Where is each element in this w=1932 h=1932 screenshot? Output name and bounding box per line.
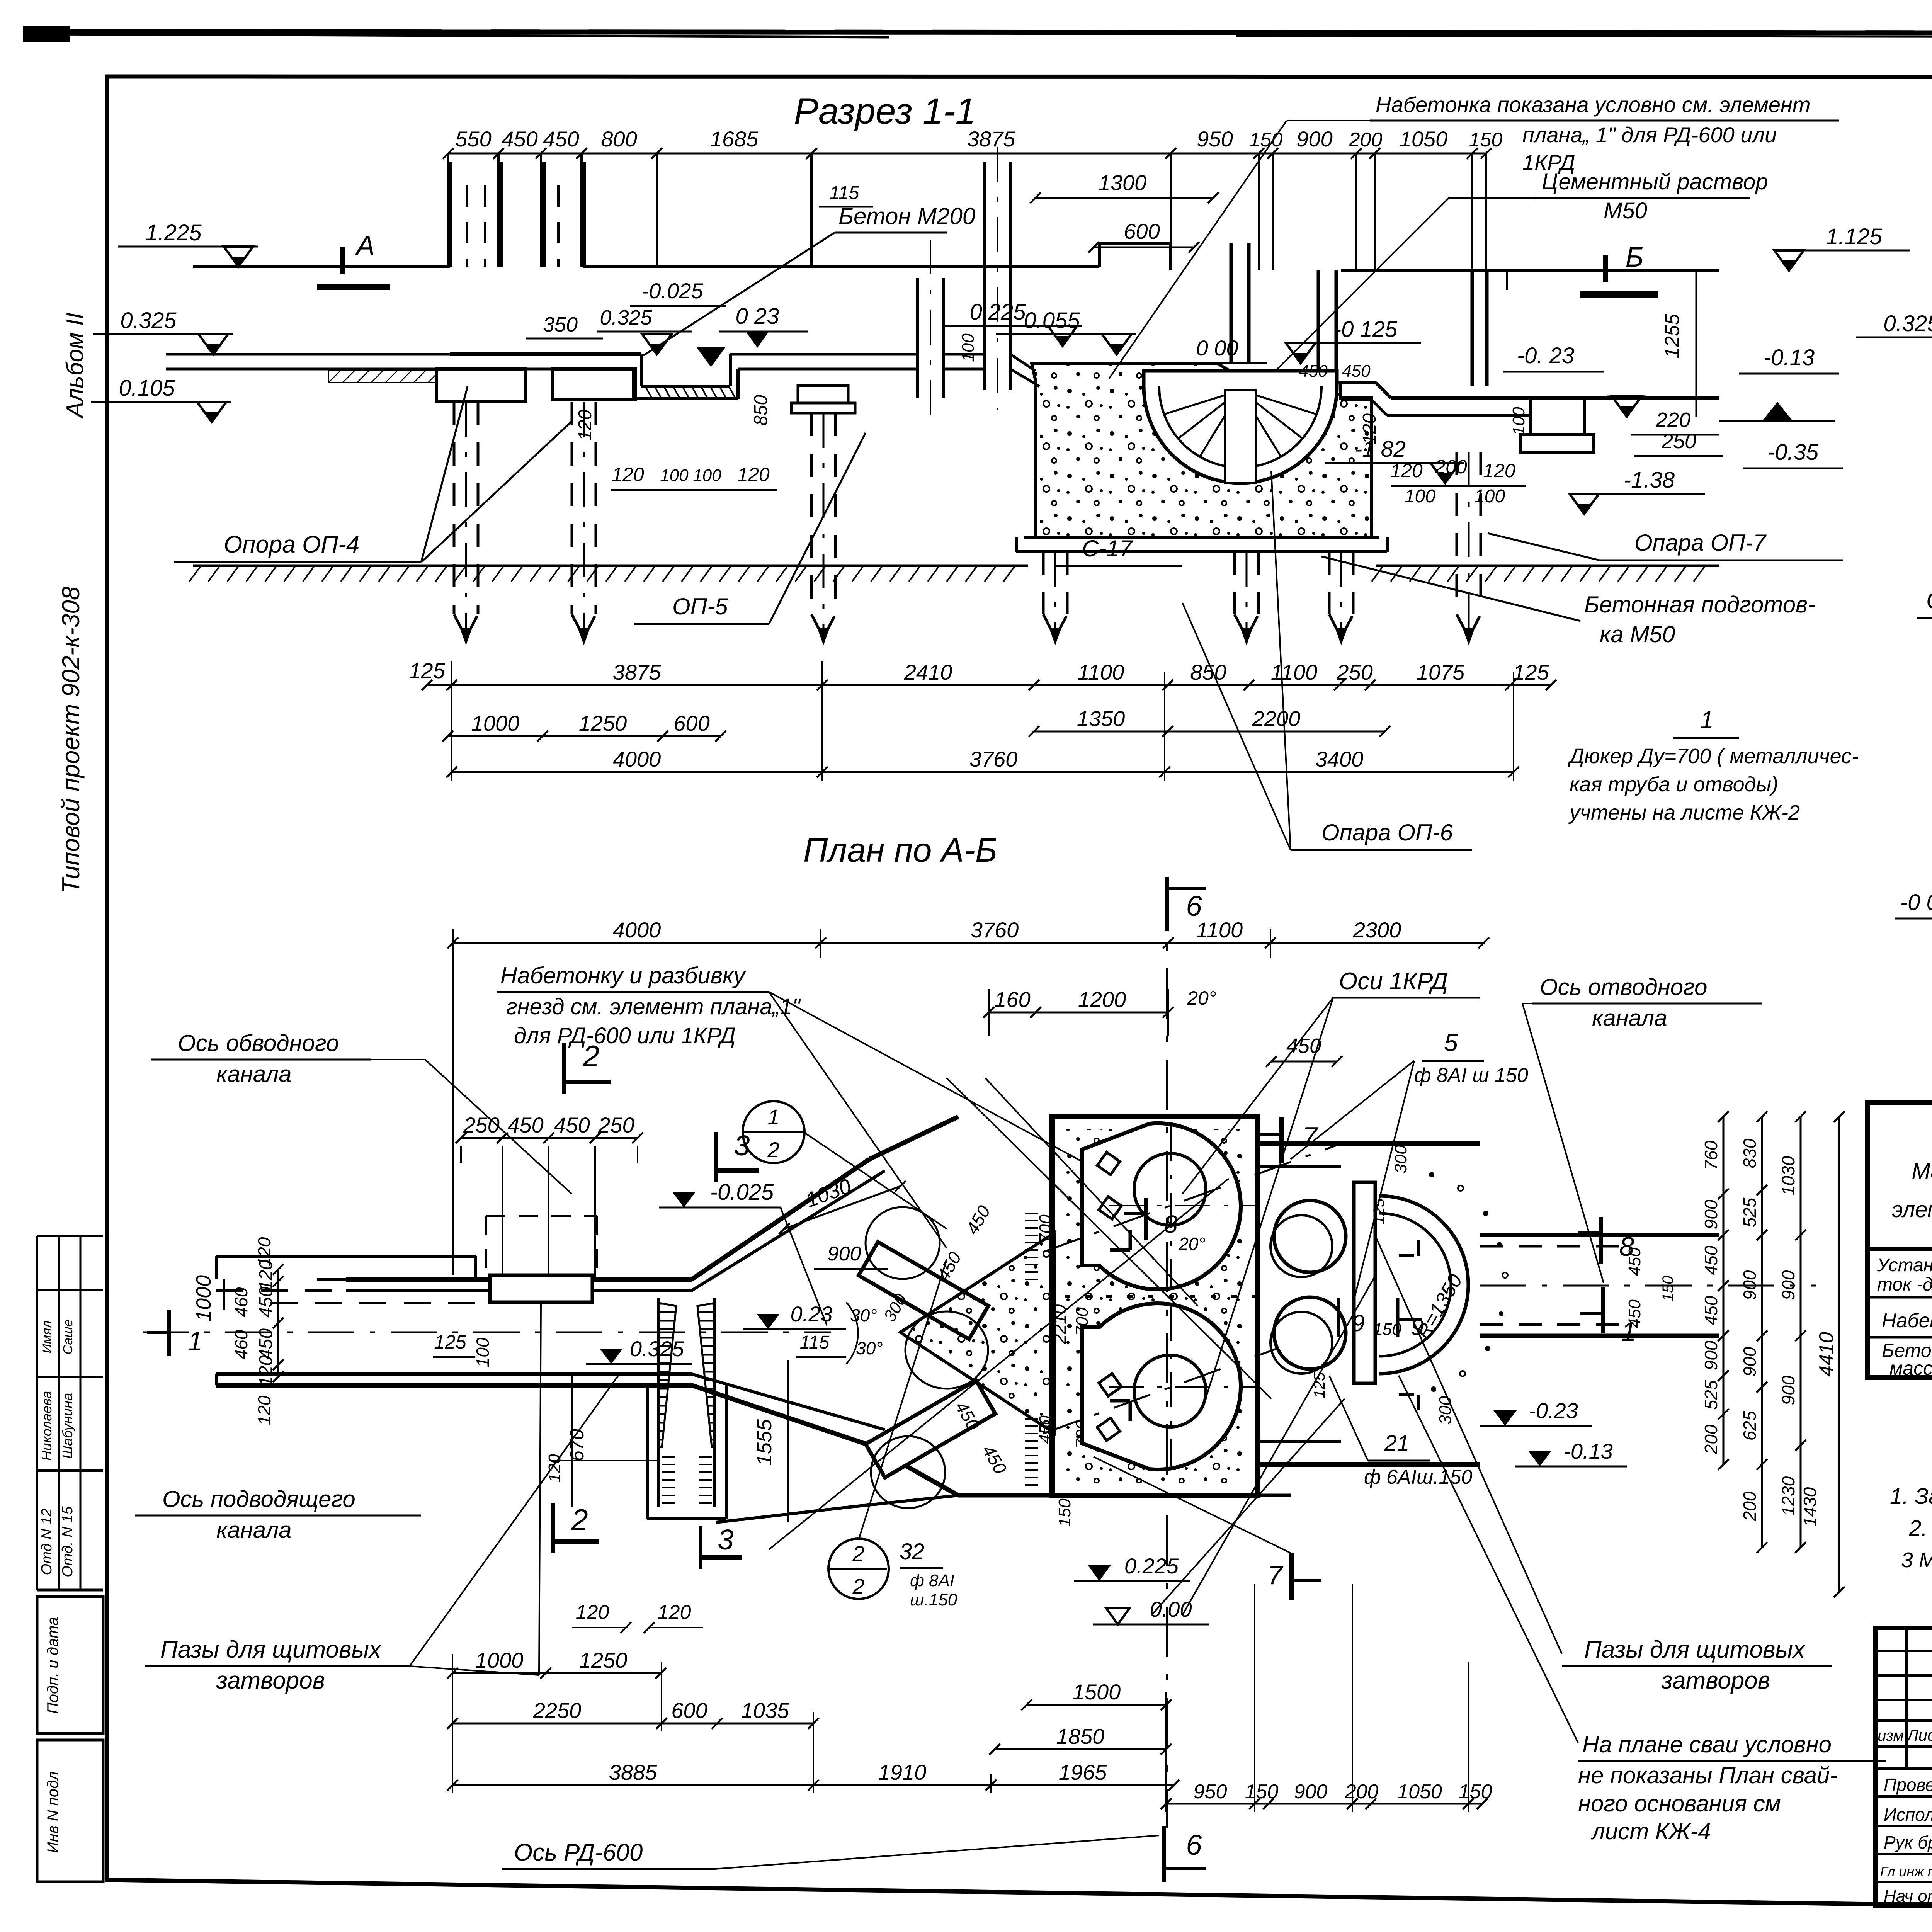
svg-text:затворов: затворов <box>216 1667 325 1694</box>
margin text project <box>57 586 85 893</box>
svg-text:Опара ОП-7: Опара ОП-7 <box>1634 530 1767 556</box>
section 1-1 mid labels <box>526 279 808 367</box>
label tsementnyi rastvor <box>1236 169 1768 410</box>
svg-text:1000: 1000 <box>192 1275 215 1321</box>
base slab under block <box>1016 537 1387 552</box>
svg-text:1.125: 1.125 <box>1826 224 1882 249</box>
svg-text:массив: массив <box>1889 1357 1932 1379</box>
svg-text:200: 200 <box>1434 456 1467 478</box>
svg-text:120: 120 <box>1483 460 1515 481</box>
svg-text:1850: 1850 <box>1056 1724 1105 1748</box>
label c-17 <box>1055 536 1182 566</box>
level 0.23 plan <box>743 1302 846 1329</box>
svg-text:1910: 1910 <box>878 1760 927 1784</box>
section mark 6 bottom <box>1164 1826 1206 1882</box>
svg-text:100: 100 <box>1474 486 1505 507</box>
svg-text:Б: Б <box>1626 242 1644 273</box>
dim 1555 rotated <box>753 1360 788 1522</box>
plan middle outlet walls <box>1258 1144 1480 1464</box>
svg-text:460: 460 <box>231 1330 251 1359</box>
section mark 7 upper <box>1258 1117 1319 1163</box>
svg-text:-0.13: -0.13 <box>1764 345 1815 370</box>
section 1-1 mid walls pair B <box>959 147 1010 410</box>
svg-text:900: 900 <box>1778 1270 1798 1300</box>
svg-text:0.105: 0.105 <box>119 376 175 401</box>
dim 670 120 plan lower-left <box>545 1374 657 1507</box>
dims 160 1200 20deg <box>983 987 1216 1036</box>
svg-text:800: 800 <box>601 127 637 151</box>
plan teardrop upper <box>1043 1123 1341 1289</box>
svg-text:3: 3 <box>718 1524 733 1556</box>
label pazy dlya shchitovykh left <box>145 1302 618 1694</box>
plan chamber square <box>1052 1117 1258 1495</box>
margin stamp table <box>37 1236 103 1590</box>
section 1-1 bottom dims row1 <box>409 658 1556 690</box>
svg-text:830: 830 <box>1740 1138 1760 1168</box>
svg-text:2: 2 <box>767 1138 779 1162</box>
svg-text:Бетонная подготов-: Бетонная подготов- <box>1584 592 1815 617</box>
svg-text:3885: 3885 <box>609 1760 657 1784</box>
svg-text:600: 600 <box>671 1698 707 1723</box>
support op-4 pads <box>437 369 636 402</box>
label opora op-4 2-2 <box>1917 410 1932 618</box>
svg-text:-0.025: -0.025 <box>642 279 704 303</box>
svg-text:760: 760 <box>1701 1140 1721 1170</box>
svg-text:450: 450 <box>1342 362 1371 381</box>
svg-text:Шабунина: Шабунина <box>60 1393 75 1459</box>
svg-text:150: 150 <box>1055 1498 1074 1527</box>
label op-5 <box>634 433 866 624</box>
svg-text:250: 250 <box>598 1113 634 1137</box>
title block frame <box>1875 1628 1932 1907</box>
svg-text:125: 125 <box>409 658 445 683</box>
svg-text:3 Марка бетона по морозостой: 3 Марка бетона по морозостойкости и водо… <box>1901 1548 1932 1572</box>
section mark 8 right <box>1578 1217 1634 1264</box>
label osi 1KRD <box>1182 968 1480 1399</box>
svg-text:4410: 4410 <box>1815 1332 1838 1377</box>
svg-text:канала: канала <box>216 1061 292 1087</box>
plan gate circle upper <box>866 1207 988 1389</box>
svg-text:125: 125 <box>434 1331 466 1353</box>
label opora op-4 <box>174 386 572 562</box>
svg-text:1. За относительную отм 0.: 1. За относительную отм 0.00 принята абс… <box>1890 1484 1932 1509</box>
svg-text:120: 120 <box>658 1601 691 1624</box>
svg-text:100: 100 <box>473 1337 493 1367</box>
svg-text:-0. 23: -0. 23 <box>1517 343 1574 368</box>
ground hatch line section 1-1 <box>189 566 1719 582</box>
circle mark 2-2 lower <box>828 1539 957 1609</box>
svg-text:Имял: Имял <box>40 1321 54 1354</box>
svg-text:плана„ 1" для РД-600 или: плана„ 1" для РД-600 или <box>1522 122 1777 147</box>
plan center wedge concrete <box>900 1233 1055 1434</box>
dotted gap line between teardrops <box>1065 1295 1258 1298</box>
svg-text:6: 6 <box>1186 890 1202 922</box>
plan lower chamber walls <box>716 1495 1291 1522</box>
svg-text:600: 600 <box>1124 219 1160 243</box>
level -0.025 plan <box>659 1180 827 1325</box>
dim 900 plan diag <box>814 1243 888 1269</box>
svg-text:изм: изм <box>1878 1727 1904 1744</box>
svg-text:гнезд см. элемент плана„1": гнезд см. элемент плана„1" <box>506 994 801 1019</box>
level mark 1.225 left <box>118 220 258 267</box>
svg-text:5: 5 <box>1444 1029 1458 1056</box>
svg-text:1965: 1965 <box>1059 1760 1107 1784</box>
svg-text:0 00: 0 00 <box>1196 336 1238 360</box>
dims 120 200 120 and 100 100 right <box>1359 407 1528 507</box>
svg-text:0.23: 0.23 <box>791 1302 833 1326</box>
section 1-1 right walls <box>1231 243 1507 386</box>
svg-text:1100: 1100 <box>1078 660 1124 684</box>
grinder bowl semicircle <box>1144 371 1337 483</box>
level -0025 3-3 <box>1895 890 1932 957</box>
svg-text:2: 2 <box>582 1039 599 1073</box>
svg-text:1250: 1250 <box>579 1648 628 1672</box>
svg-text:кая труба и отводы): кая труба и отводы) <box>1570 773 1778 796</box>
svg-text:1255: 1255 <box>1661 313 1684 359</box>
label B section mark <box>1580 242 1658 294</box>
svg-text:300: 300 <box>1436 1396 1455 1425</box>
svg-text:900: 900 <box>828 1243 861 1265</box>
level 1.125 right section 1-1 <box>1774 224 1910 270</box>
svg-text:200: 200 <box>1740 1491 1760 1521</box>
label os obvodnogo kanala <box>151 1030 572 1194</box>
svg-text:450: 450 <box>1286 1034 1321 1058</box>
svg-text:120: 120 <box>576 1601 609 1624</box>
svg-text:1200: 1200 <box>1078 987 1126 1012</box>
label 21 f6AI <box>1329 1376 1472 1488</box>
svg-text:1555: 1555 <box>753 1419 776 1466</box>
svg-text:Опора ОП-4: Опора ОП-4 <box>224 531 359 558</box>
svg-text:Нач отд.: Нач отд. <box>1884 1887 1932 1906</box>
plan top dims <box>447 918 1489 1275</box>
label nabetonku i razbivku <box>497 963 1121 1248</box>
svg-text:0.325: 0.325 <box>600 306 652 329</box>
svg-text:Отд N 12: Отд N 12 <box>39 1509 55 1575</box>
svg-text:Опара ОП-4: Опара ОП-4 <box>1926 587 1932 614</box>
section 1-1 bottom dims row3 <box>446 747 1519 777</box>
materials table grid <box>1867 1101 1932 1379</box>
svg-text:Инв N подл: Инв N подл <box>44 1771 61 1853</box>
dim extension verticals bottom <box>452 661 1514 781</box>
svg-text:1075: 1075 <box>1417 660 1465 684</box>
svg-text:120: 120 <box>575 410 595 440</box>
svg-text:Пазы для щитовых: Пазы для щитовых <box>1584 1636 1806 1663</box>
dim 1030 plan diag <box>779 1174 906 1234</box>
svg-text:7: 7 <box>1268 1560 1284 1590</box>
svg-text:850: 850 <box>751 395 771 426</box>
svg-text:200: 200 <box>1701 1424 1721 1454</box>
svg-text:Установка решет-: Установка решет- <box>1877 1255 1932 1276</box>
svg-text:Дюкер Ду=700 ( металличес-: Дюкер Ду=700 ( металличес- <box>1568 745 1859 768</box>
svg-text:Набетонка: Набетонка <box>1882 1310 1932 1332</box>
plan outlet channel <box>1480 1235 1816 1336</box>
svg-text:1: 1 <box>188 1326 203 1356</box>
dim 115 plan <box>796 1332 846 1357</box>
svg-text:115: 115 <box>800 1332 830 1353</box>
svg-text:ток -дробилок: ток -дробилок <box>1877 1274 1932 1295</box>
svg-text:2. Общие примечания см на: 2. Общие примечания см на листе КЖ-2 <box>1908 1516 1932 1541</box>
svg-text:Рук бр: Рук бр <box>1884 1832 1932 1852</box>
plan small dims 250 450 450 250 <box>456 1113 643 1143</box>
svg-text:160: 160 <box>994 987 1030 1012</box>
plan inlet channel walls <box>143 1256 831 1385</box>
plan pipe circle lower <box>1270 1297 1346 1374</box>
svg-text:1: 1 <box>767 1105 779 1129</box>
svg-text:3760: 3760 <box>969 747 1018 771</box>
svg-text:250: 250 <box>1336 660 1372 684</box>
svg-text:2250: 2250 <box>533 1698 582 1723</box>
svg-text:0.325: 0.325 <box>630 1337 684 1361</box>
plan vertical axis RD-600 <box>1166 877 1168 1828</box>
label R1350 <box>1412 1270 1467 1343</box>
plan dashed pit rectangle <box>461 1146 638 1279</box>
svg-text:120: 120 <box>1390 460 1423 481</box>
svg-text:1685: 1685 <box>710 127 759 151</box>
svg-text:900: 900 <box>1294 1781 1328 1803</box>
svg-text:Ось обводного: Ось обводного <box>178 1030 339 1056</box>
right slab of section 1-1 <box>1341 383 1719 452</box>
svg-text:Пазы для щитовых: Пазы для щитовых <box>160 1636 382 1663</box>
svg-text:1500: 1500 <box>1073 1680 1121 1704</box>
svg-text:0.225: 0.225 <box>1124 1554 1179 1578</box>
svg-text:525: 525 <box>1740 1197 1760 1227</box>
svg-text:150: 150 <box>1469 129 1503 151</box>
notes text <box>1890 1484 1932 1628</box>
plan small dims 120 120 row <box>572 1601 703 1633</box>
svg-text:Разрез 1-1: Разрез 1-1 <box>794 91 976 132</box>
dim 120 100 small left pit <box>575 395 777 490</box>
svg-text:Набетонка показана условно: Набетонка показана условно см. элемент <box>1376 92 1811 117</box>
label pazy dlya shchitovykh right <box>1562 1636 1832 1694</box>
plan left vertical dims <box>192 1260 284 1386</box>
svg-text:затворов: затворов <box>1661 1667 1770 1694</box>
plan gate rect upper diagonal <box>859 1242 988 1339</box>
svg-text:Опара ОП-6: Опара ОП-6 <box>1321 820 1453 845</box>
svg-text:0.00: 0.00 <box>1150 1597 1192 1621</box>
section mark 7 lower <box>1268 1553 1321 1600</box>
svg-text:625: 625 <box>1740 1411 1760 1440</box>
svg-text:120: 120 <box>254 1395 274 1425</box>
svg-text:1.225: 1.225 <box>145 220 202 245</box>
svg-text:лист КЖ-4: лист КЖ-4 <box>1591 1818 1711 1844</box>
section 1-1 top dimension line <box>443 127 1502 159</box>
svg-text:450: 450 <box>502 127 537 151</box>
svg-text:-1.38: -1.38 <box>1624 468 1675 493</box>
svg-text:220: 220 <box>1655 408 1690 432</box>
svg-text:Гл инж пр: Гл инж пр <box>1880 1864 1932 1879</box>
svg-text:Исполн: Исполн <box>1884 1804 1932 1825</box>
svg-text:120: 120 <box>254 1237 274 1267</box>
svg-text:На плане сваи условно: На плане сваи условно <box>1582 1731 1832 1757</box>
svg-text:6: 6 <box>1186 1829 1202 1861</box>
plan gate rect lower diagonal <box>866 1380 995 1478</box>
svg-text:1: 1 <box>1700 706 1714 734</box>
svg-text:ОП-5: ОП-5 <box>672 594 728 619</box>
svg-text:1: 1 <box>1621 1316 1636 1347</box>
label dyuker <box>1568 706 1859 824</box>
dim 600 <box>1088 219 1199 253</box>
svg-text:100: 100 <box>1405 486 1435 507</box>
svg-text:1100: 1100 <box>1196 918 1243 942</box>
svg-text:1100: 1100 <box>1271 660 1317 684</box>
section 1-1 heading <box>794 91 976 132</box>
svg-text:120: 120 <box>1359 413 1380 444</box>
svg-text:2: 2 <box>852 1541 864 1566</box>
section mark 3 lower <box>701 1524 742 1569</box>
section 1-1 left walls <box>450 162 583 267</box>
svg-text:115: 115 <box>830 183 859 203</box>
margin box inv n podl <box>37 1740 103 1882</box>
svg-text:Ось РД-600: Ось РД-600 <box>514 1839 643 1866</box>
svg-text:150: 150 <box>1660 1276 1677 1302</box>
svg-text:-0.025: -0.025 <box>710 1180 774 1205</box>
label betonnaya podgotovka <box>1321 556 1815 647</box>
svg-text:-0.13: -0.13 <box>1563 1439 1613 1463</box>
label opora op-6 <box>1182 471 1472 850</box>
svg-text:300: 300 <box>1391 1145 1410 1173</box>
svg-text:0 225: 0 225 <box>969 299 1026 325</box>
level 0.325 plan <box>586 1337 692 1364</box>
svg-text:900: 900 <box>1778 1375 1798 1405</box>
plan rotated dim labels diagonal walls <box>880 1202 1092 1527</box>
level mark 0.325 left <box>93 308 233 354</box>
svg-text:-0 025: -0 025 <box>1900 890 1932 915</box>
svg-text:150: 150 <box>1459 1781 1492 1803</box>
plan gate circle lower <box>871 1436 945 1508</box>
section mark 9 marks <box>1338 1298 1424 1340</box>
svg-text:2300: 2300 <box>1353 918 1401 942</box>
section 1-1 ground surface line <box>193 243 1719 270</box>
svg-text:Ось отводного: Ось отводного <box>1540 974 1707 1000</box>
svg-text:Николаева: Николаева <box>39 1391 54 1461</box>
svg-text:21: 21 <box>1384 1431 1410 1456</box>
svg-text:600: 600 <box>673 711 709 735</box>
svg-text:Лист: Лист <box>1906 1726 1932 1744</box>
svg-text:Цементный раствор: Цементный раствор <box>1542 169 1768 194</box>
svg-text:100: 100 <box>660 466 689 485</box>
support op-5 pad <box>791 386 855 413</box>
svg-text:2: 2 <box>852 1574 864 1599</box>
plan ruler hatch strips chamber wall <box>1025 1213 1038 1485</box>
svg-text:1230: 1230 <box>1778 1476 1798 1516</box>
svg-text:3760: 3760 <box>971 918 1019 942</box>
svg-text:канала: канала <box>1592 1005 1667 1031</box>
level marks right of section 1-1 <box>942 270 1843 514</box>
plan left dim 120 upper <box>254 1237 274 1425</box>
section 1-1 bottom dims row2 <box>1029 706 1390 737</box>
concrete block with stipple <box>1032 363 1372 537</box>
plan heading <box>803 831 997 869</box>
plan bottom extension lines <box>452 1584 1468 1812</box>
angle labels 30 <box>846 1302 883 1364</box>
svg-text:950: 950 <box>1194 1781 1227 1803</box>
svg-text:2200: 2200 <box>1252 706 1301 731</box>
svg-text:100: 100 <box>1509 407 1528 435</box>
svg-text:2: 2 <box>571 1503 588 1537</box>
plan gate rectangle middle <box>1354 1182 1375 1383</box>
svg-text:900: 900 <box>1296 127 1332 151</box>
svg-text:8: 8 <box>1619 1231 1634 1262</box>
svg-text:120: 120 <box>256 1355 276 1386</box>
svg-text:-0 125: -0 125 <box>1334 317 1398 342</box>
svg-text:450: 450 <box>256 1287 276 1318</box>
svg-text:-0.35: -0.35 <box>1767 440 1819 465</box>
svg-text:Отд. N 15: Отд. N 15 <box>60 1506 76 1577</box>
svg-text:200: 200 <box>1349 129 1383 151</box>
svg-text:550: 550 <box>455 127 491 151</box>
svg-text:С-17: С-17 <box>1082 536 1133 561</box>
svg-text:20°: 20° <box>1178 1234 1206 1254</box>
svg-text:150: 150 <box>1245 1781 1279 1803</box>
label nabetonka pokazana uslovno <box>1109 92 1839 379</box>
svg-text:100: 100 <box>693 466 721 485</box>
svg-text:450: 450 <box>543 127 579 151</box>
svg-text:1250: 1250 <box>579 711 627 735</box>
svg-text:450: 450 <box>1701 1296 1721 1325</box>
section mark 3 upper <box>716 1129 759 1182</box>
svg-text:Набетонку и разбивку: Набетонку и разбивку <box>500 963 747 988</box>
svg-text:3875: 3875 <box>967 127 1015 151</box>
svg-text:1300: 1300 <box>1099 170 1147 195</box>
svg-text:ного основания см: ного основания см <box>1578 1791 1781 1816</box>
svg-text:Провер: Провер <box>1884 1775 1932 1795</box>
svg-text:1030: 1030 <box>1778 1156 1798 1196</box>
dim 115 small <box>819 183 873 207</box>
svg-text:460: 460 <box>231 1287 251 1317</box>
dim 450 top middle <box>1266 1034 1342 1067</box>
svg-text:125: 125 <box>1513 660 1549 684</box>
svg-text:ф 6АIш.150: ф 6АIш.150 <box>1364 1466 1472 1488</box>
plan bottom dims right rows <box>1021 1680 1172 1710</box>
svg-text:Подп. и дата: Подп. и дата <box>44 1617 61 1714</box>
label os rd-600 <box>502 1835 1159 1869</box>
plan lower channel walls below constriction <box>647 1385 726 1519</box>
svg-text:элемента: элемента <box>1892 1197 1932 1222</box>
plan teardrop lower <box>1043 1303 1341 1469</box>
svg-text:200: 200 <box>1345 1781 1379 1803</box>
svg-text:для РД-600 или 1КРД: для РД-600 или 1КРД <box>514 1023 736 1048</box>
svg-text:Саше: Саше <box>61 1320 75 1355</box>
label na plane svai <box>1578 1731 1886 1844</box>
svg-text:не показаны План свай-: не показаны План свай- <box>1578 1762 1837 1788</box>
svg-text:450: 450 <box>1701 1245 1721 1275</box>
scan corner blob <box>23 26 70 42</box>
section mark 1 right <box>1580 1287 1636 1347</box>
svg-text:-0.23: -0.23 <box>1529 1398 1578 1423</box>
pit hatching under left channel <box>645 386 736 399</box>
svg-text:М50: М50 <box>1604 198 1647 223</box>
plan constriction hatched taper <box>659 1298 715 1507</box>
section 1-1 wall extension lines <box>448 153 1486 270</box>
svg-text:20°: 20° <box>1187 987 1216 1009</box>
section letter A mark <box>317 230 390 287</box>
svg-text:1050: 1050 <box>1400 127 1448 151</box>
section mark 6 top <box>1167 877 1206 931</box>
dim 1300 <box>1030 170 1219 203</box>
svg-text:32: 32 <box>900 1539 925 1564</box>
svg-text:150: 150 <box>1249 129 1283 151</box>
svg-text:Оси 1КРД: Оси 1КРД <box>1339 968 1448 995</box>
svg-text:450: 450 <box>507 1113 543 1137</box>
level 0.225 plan bottom <box>1074 1554 1190 1581</box>
plan leader lines bundle <box>769 1078 1578 1743</box>
svg-text:Ось подводящего: Ось подводящего <box>162 1486 355 1512</box>
scan top edge line <box>37 32 1932 37</box>
plan diverging walls upper <box>692 1117 958 1495</box>
svg-text:1000: 1000 <box>471 711 520 735</box>
svg-text:ф 8АI: ф 8АI <box>910 1571 954 1590</box>
piles section 1-1 <box>454 402 1481 645</box>
